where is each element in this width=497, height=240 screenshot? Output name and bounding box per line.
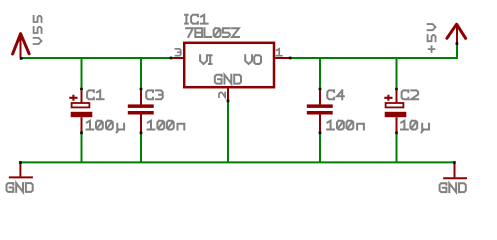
wire C2 bottom — [396, 134, 398, 162]
pin name VI — [200, 55, 211, 64]
junction IC1 pin 1 — [289, 57, 292, 60]
label C1 — [87, 90, 104, 99]
wire C1 bottom — [81, 134, 83, 162]
label GND right — [440, 183, 466, 192]
junction C2 bottom pin — [395, 131, 398, 134]
junction +5V pin — [456, 42, 459, 45]
wire C3 bottom — [140, 134, 142, 162]
junction VSS pin — [20, 57, 23, 60]
label IC1 — [185, 15, 208, 24]
regulator IC1 body — [184, 43, 274, 87]
junction GND left — [19, 161, 22, 164]
pin name VO — [245, 55, 261, 64]
wire top rail left (VSS to IC pin VI) — [21, 57, 171, 59]
ground symbol right — [443, 163, 467, 178]
label GND left — [7, 183, 33, 192]
junction C3 bottom pin — [140, 131, 143, 134]
junction C1 bottom pin — [80, 131, 83, 134]
junction C4 top pin — [319, 88, 322, 91]
ground symbol left — [9, 163, 33, 177]
supply symbol +5V (up arrow) — [447, 24, 466, 43]
net label VSS — [34, 16, 42, 44]
pin number 1 — [277, 49, 282, 56]
wire C2 top — [396, 58, 398, 88]
wire C4 top — [319, 58, 321, 88]
supply symbol VSS (up arrow) — [13, 34, 30, 59]
wire +5V riser — [456, 44, 458, 60]
label C4 — [327, 90, 344, 99]
wire top rail right (IC pin VO to +5V) — [291, 57, 457, 59]
capacitor C2 (polarized) — [384, 90, 406, 132]
value 100µ — [87, 121, 125, 133]
junction C4 bottom pin — [319, 131, 322, 134]
junction C1 top pin — [80, 88, 83, 91]
IC1 pin VO (right, pin 1) — [275, 57, 289, 59]
value 100n — [148, 121, 185, 130]
pin number 2 — [219, 92, 225, 97]
capacitor C1 (polarized) — [69, 90, 92, 132]
junction C2 top pin — [395, 88, 398, 91]
value 100n — [327, 121, 364, 130]
label C3 — [146, 90, 163, 99]
junction GND right — [453, 161, 456, 164]
wire C3 top — [140, 58, 142, 88]
value 10µ — [401, 121, 429, 133]
junction C3 top pin — [140, 88, 143, 91]
label C2 — [402, 90, 419, 99]
IC1 pin GND (bottom, pin 2) — [227, 88, 229, 99]
junction IC1 pin 2 — [227, 100, 230, 103]
wire C1 top — [81, 58, 83, 88]
pin name GND — [215, 75, 241, 84]
wire IC1 GND pin to rail — [227, 102, 229, 162]
wire C4 bottom — [319, 134, 321, 162]
capacitor C4 — [307, 90, 333, 132]
net label +5V — [428, 24, 436, 52]
IC1 pin VI (left, pin 3) — [173, 57, 183, 59]
pin number 3 — [175, 49, 180, 56]
capacitor C3 — [128, 90, 154, 132]
value 78L05Z — [186, 28, 239, 37]
wire bottom ground rail — [20, 161, 454, 163]
junction IC1 pin 3 — [170, 57, 173, 60]
